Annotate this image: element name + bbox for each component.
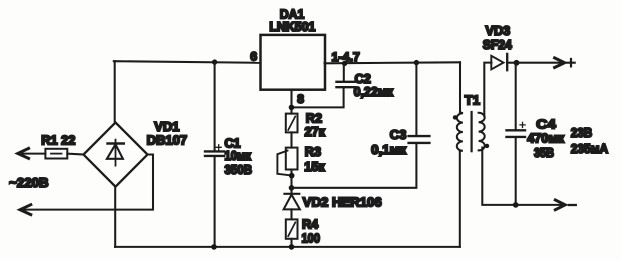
input arrow top (18, 148, 29, 158)
svg-text:0,1мк: 0,1мк (371, 143, 407, 157)
resistor R1 (45, 149, 67, 159)
node junction C3 branch (289, 185, 295, 191)
wire diode to plus output (507, 62, 563, 64)
wire DA1 right pin rail (325, 62, 461, 63)
svg-text:VD3: VD3 (486, 24, 511, 38)
capacitor C3 (409, 136, 430, 143)
output arrow minus (555, 200, 565, 210)
svg-text:LNK501: LNK501 (269, 20, 315, 34)
svg-text:0,22мк: 0,22мк (354, 85, 394, 99)
svg-text:35В: 35В (534, 146, 554, 160)
transformer T1 (453, 62, 489, 247)
svg-text:VD2 HER106: VD2 HER106 (303, 195, 382, 209)
T1 primary bottom lead (459, 151, 461, 247)
T1 secondary winding (479, 113, 485, 151)
wire R3 to VD2 (290, 170, 292, 194)
svg-text:C3: C3 (390, 127, 407, 142)
capacitor C2 (337, 82, 355, 87)
node junction C3 top (414, 60, 419, 65)
wire secondary bottom lead (482, 148, 515, 205)
svg-text:470мк: 470мк (527, 132, 565, 146)
input arrow bottom (20, 205, 31, 215)
IC DA1 LNK501 box (261, 35, 326, 90)
T1 secondary polarity dot (485, 144, 489, 148)
resistor R4 (286, 219, 298, 238)
node junction C1 bottom (211, 244, 217, 250)
wire top rail from left corner to DA1 pin 6 (114, 61, 261, 63)
svg-text:DB107: DB107 (147, 133, 187, 148)
svg-text:6: 6 (250, 50, 257, 64)
wire to minus output (516, 204, 563, 206)
wire DA1 pin 8 stub (290, 90, 292, 114)
svg-text:SF24: SF24 (483, 38, 512, 52)
wire top-left vertical from bridge top corner (114, 61, 116, 122)
wire C4 lower stem (515, 137, 517, 205)
label minus terminal (569, 204, 576, 206)
svg-text:R4: R4 (302, 218, 318, 232)
bridge rectifier VD1 diamond (84, 123, 148, 187)
diode VD2 (284, 194, 300, 210)
node junction C4 top (514, 60, 520, 66)
wire C1 upper stem (214, 62, 216, 151)
wire C2 upper stem (343, 63, 345, 81)
wire R2 to R3 (290, 132, 292, 147)
node junction R4 bottom (289, 244, 295, 250)
wire C2 lower stem to pin 8 (292, 88, 344, 108)
wire C3 upper stem (415, 63, 417, 136)
T1 primary winding (457, 112, 463, 151)
svg-text:T1: T1 (465, 92, 480, 107)
svg-text:350В: 350В (225, 163, 253, 177)
svg-text:10мк: 10мк (225, 149, 252, 163)
svg-text:235мА: 235мА (571, 141, 609, 156)
output arrow plus (555, 58, 565, 68)
wire AC input 2 with arrow (21, 155, 153, 210)
wire bottom rail (115, 246, 460, 248)
svg-text:R2: R2 (306, 111, 322, 125)
T1 core (471, 112, 473, 151)
wire secondary top lead (484, 63, 491, 116)
node junction R3 tap (289, 173, 295, 179)
wire C1 lower stem (214, 156, 216, 247)
svg-text:15к: 15к (304, 160, 325, 174)
svg-text:R1 22: R1 22 (41, 133, 75, 147)
svg-text:R3: R3 (305, 145, 321, 159)
capacitor C1 (205, 145, 224, 156)
T1 primary polarity dot (453, 115, 457, 119)
svg-text:27к: 27к (305, 125, 326, 139)
bridge VD1 inner diode (107, 140, 124, 166)
wire R1 to bridge left corner (67, 153, 83, 156)
node junction C4 bottom (513, 202, 519, 208)
T1 primary top lead (459, 62, 461, 112)
svg-text:~220В: ~220В (9, 176, 48, 190)
capacitor C4 (507, 122, 526, 136)
label plus terminal (567, 59, 574, 66)
resistor R2 (286, 114, 298, 133)
svg-text:100: 100 (302, 231, 321, 245)
svg-text:C4: C4 (536, 116, 556, 131)
node junction C1 top (212, 59, 217, 64)
svg-text:8: 8 (297, 92, 304, 106)
wire VD2 to R4 (290, 209, 292, 219)
wire to C3 bottom (292, 145, 417, 188)
wire bridge bottom vertical (114, 187, 116, 247)
svg-text:23В: 23В (571, 125, 593, 140)
wire R1 left lead with input arrow (20, 153, 46, 155)
resistor R3 (with tap) (277, 148, 297, 176)
wire C4 upper stem (515, 63, 517, 130)
wire R4 to bottom rail (290, 239, 292, 247)
node junction pin 8 (289, 105, 295, 111)
node junction C2 top (342, 61, 347, 66)
diode VD3 (491, 54, 507, 70)
